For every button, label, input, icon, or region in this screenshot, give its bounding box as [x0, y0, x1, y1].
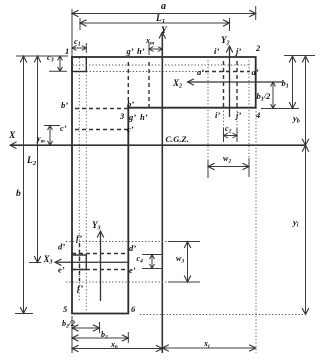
- line f' (dashed vertical): [79, 243, 81, 281]
- line j' (dashed): [236, 61, 238, 108]
- line h' (dashed): [148, 62, 150, 108]
- svg-text:b’: b’: [61, 100, 68, 110]
- dimension b2: [127, 332, 129, 343]
- svg-text:3: 3: [119, 111, 125, 121]
- right top tick: [284, 55, 315, 57]
- line b' (dashed): [75, 108, 128, 110]
- svg-text:c’: c’: [127, 124, 134, 134]
- tick for L1 left end: [79, 18, 81, 30]
- dotted vertical x=86.5 (square right edge extended): [85, 72, 87, 312]
- dimension b1: [292, 56, 294, 109]
- dimension xm: [148, 43, 150, 55]
- svg-text:c’: c’: [60, 123, 67, 133]
- right reference tick for a: [255, 6, 257, 20]
- dimension c1: [72, 47, 86, 49]
- dimension yi: [305, 145, 307, 314]
- corner element square c4 (stem): [72, 255, 86, 270]
- dimension L1: [80, 22, 230, 24]
- svg-text:b1/2: b1/2: [257, 91, 272, 103]
- w2 guide dotted: [207, 57, 209, 161]
- dimension xi: [162, 347, 255, 349]
- section outline 1-2-4-3-6-5: [72, 57, 256, 314]
- dimension w3: [168, 241, 200, 243]
- svg-text:e’: e’: [129, 265, 136, 275]
- corner element square c1/c3 (top-left): [72, 57, 86, 72]
- line i' (dashed): [223, 61, 225, 108]
- dimension b1/2: [272, 82, 274, 109]
- svg-text:f’: f’: [77, 283, 83, 293]
- Y2 axis: [229, 46, 231, 117]
- dimension c3: [59, 56, 61, 71]
- Y3 axis: [100, 231, 102, 301]
- dimension w2: [207, 160, 209, 178]
- svg-text:d’: d’: [58, 242, 65, 252]
- dimension b2/2: [99, 322, 101, 333]
- svg-text:g’: g’: [128, 112, 136, 122]
- svg-text:1: 1: [65, 46, 69, 56]
- w3 guide dotted: [66, 241, 172, 243]
- dotted horizontal y=314.5 (stem bottom extended): [140, 314, 306, 316]
- dimension c2: [223, 128, 225, 142]
- svg-text:i’: i’: [215, 110, 220, 120]
- svg-text:b2/2: b2/2: [62, 319, 75, 330]
- svg-text:C.G.Z.: C.G.Z.: [166, 134, 189, 144]
- dotted vertical x=256 (flange right edge extended): [255, 108, 257, 353]
- line d' (dashed): [72, 253, 128, 255]
- dimension c4: [142, 254, 162, 256]
- svg-text:j’: j’: [234, 110, 241, 120]
- line c' (dashed): [75, 129, 128, 131]
- X axis: [10, 144, 306, 146]
- line e' (dashed): [72, 269, 128, 271]
- svg-text:X: X: [8, 131, 16, 141]
- svg-text:h’: h’: [137, 46, 145, 56]
- c2 guide dotted: [223, 108, 225, 129]
- svg-text:j’: j’: [234, 46, 241, 56]
- dimension yb: [305, 56, 307, 145]
- dimension a: [72, 13, 256, 15]
- svg-text:a’: a’: [252, 67, 259, 77]
- dotted horizontal y=65.5 (square centre extended): [73, 64, 250, 66]
- svg-text:a: a: [161, 1, 166, 12]
- b1 bottom tick: [261, 108, 299, 110]
- dimension b (total height): [23, 56, 25, 314]
- bottom left tick line: [71, 316, 73, 353]
- svg-text:e’: e’: [58, 265, 65, 275]
- svg-text:a’: a’: [197, 67, 204, 77]
- left reference line extension: [71, 9, 73, 57]
- dimension xb: [72, 348, 162, 350]
- svg-text:d’: d’: [129, 243, 136, 253]
- X2 axis: [188, 81, 283, 83]
- svg-text:g’: g’: [126, 46, 134, 56]
- tick for L1 at Y2: [229, 18, 231, 31]
- dotted vertical x=79.5 (square centre extended): [78, 58, 80, 302]
- dimension ym: [44, 125, 60, 127]
- svg-text:b: b: [16, 189, 21, 199]
- svg-text:h’: h’: [140, 112, 148, 122]
- svg-text:b’: b’: [127, 99, 134, 109]
- line a' (dashed): [205, 71, 250, 73]
- dotted horizontal y=71.5 (square bottom extended): [87, 71, 206, 73]
- line g' (dashed, flange-stem boundary): [127, 62, 129, 108]
- dimension L2: [37, 56, 39, 263]
- svg-text:2: 2: [255, 43, 261, 53]
- Y axis: [161, 32, 163, 353]
- X3 axis: [55, 261, 129, 263]
- svg-text:i’: i’: [214, 46, 219, 56]
